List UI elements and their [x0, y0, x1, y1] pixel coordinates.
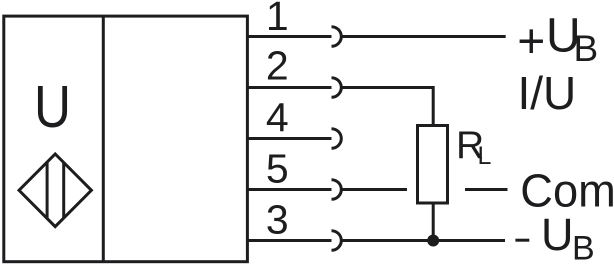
pin 3 connector: [332, 231, 342, 251]
pin 1 connector: [332, 27, 342, 47]
pin 2 connector: [332, 78, 342, 98]
resistor RL: [418, 126, 448, 204]
svg-text:3: 3: [266, 197, 289, 243]
sensor body divider: [102, 16, 105, 262]
svg-text:5: 5: [266, 146, 289, 192]
pin 1 wire: [247, 35, 331, 38]
svg-text:I/U: I/U: [518, 67, 577, 119]
pin 5 connector: [332, 180, 342, 200]
ultrasonic transducer symbol: [19, 154, 91, 227]
sensor body outline: [4, 16, 248, 262]
pin 4 connector: [332, 129, 342, 149]
wire pin 5 toward resistor: [341, 188, 407, 191]
wire resistor to junction: [432, 203, 435, 241]
pin 3 wire: [247, 239, 331, 242]
pin 5 wire: [247, 188, 331, 191]
svg-text:U: U: [34, 74, 71, 140]
wire pin 2 to resistor RL: [341, 88, 433, 125]
svg-text:B: B: [574, 28, 599, 69]
svg-text:2: 2: [266, 43, 289, 89]
junction node: [427, 235, 439, 247]
pin 2 wire: [247, 86, 331, 89]
svg-text:U: U: [541, 209, 574, 260]
wire to -UB: [341, 239, 505, 242]
wire to +UB: [341, 35, 505, 38]
svg-text:L: L: [478, 142, 492, 170]
svg-text:1: 1: [266, 0, 289, 39]
pin 4 wire: [247, 137, 331, 140]
minus sign of -UB: [515, 239, 529, 242]
svg-text:4: 4: [266, 95, 289, 141]
svg-text:B: B: [572, 229, 595, 266]
wire resistor to Com: [465, 188, 508, 191]
svg-text:+: +: [517, 16, 545, 69]
